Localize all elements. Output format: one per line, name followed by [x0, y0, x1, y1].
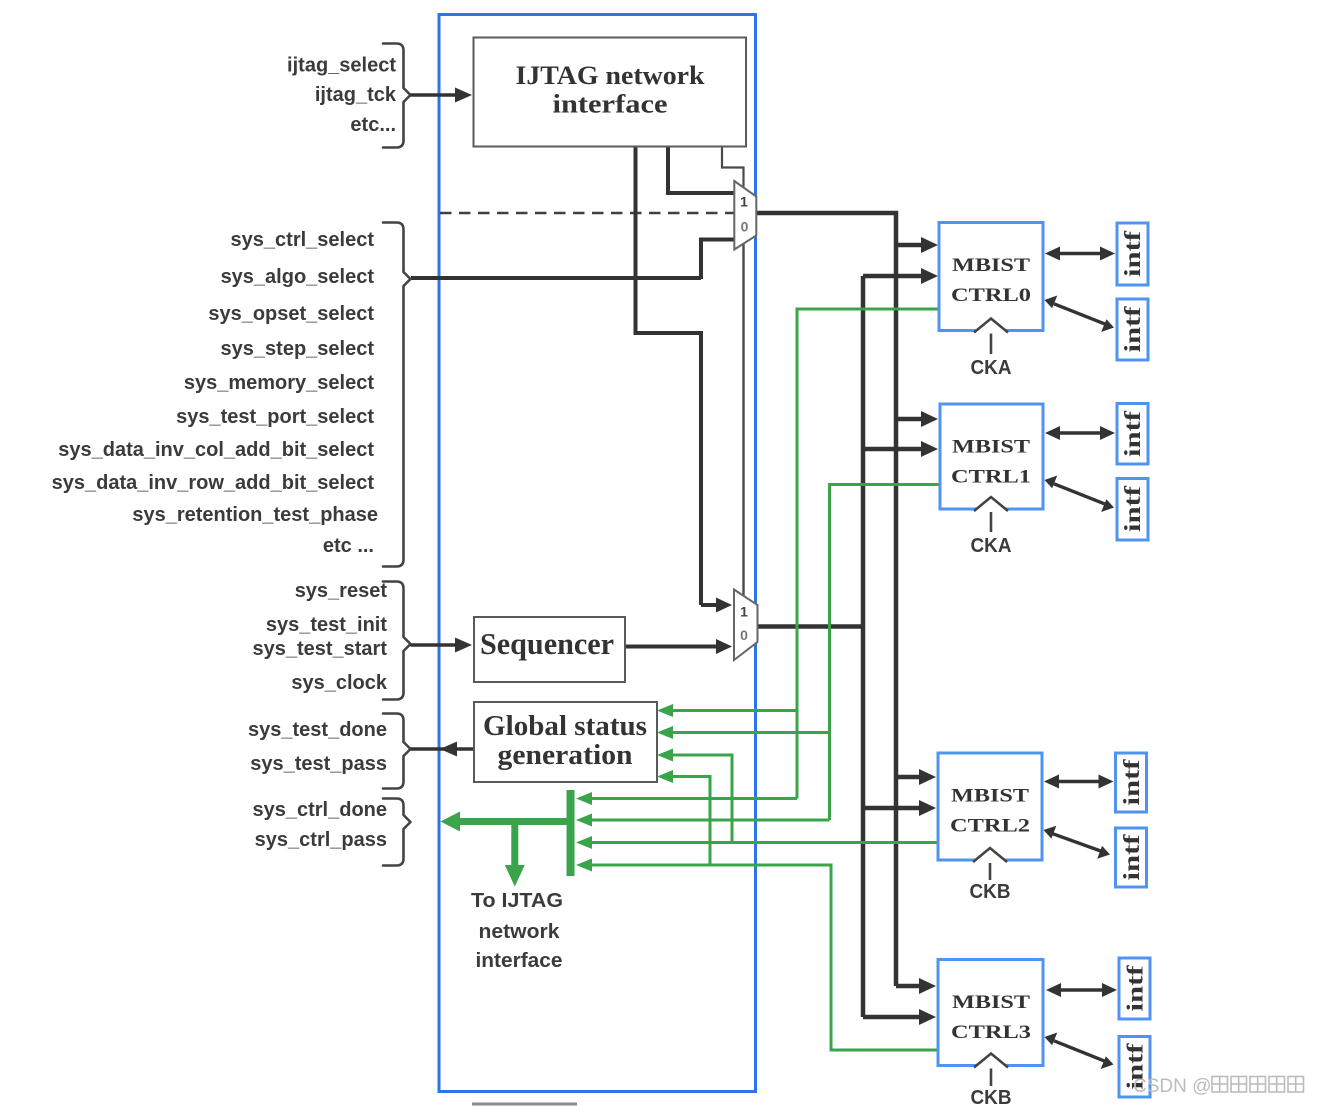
bracket ctrl done group	[383, 799, 411, 866]
intf box B (CTRL0 bottom)	[1117, 299, 1148, 360]
MBIST CTRL0 block	[939, 223, 1043, 331]
svg-text:intf: intf	[1120, 486, 1145, 532]
svg-text:sys_algo_select: sys_algo_select	[221, 266, 375, 288]
input labels ijtag group	[287, 55, 397, 137]
wire: sys select bus horizontal into mux1 input 0	[411, 240, 735, 280]
svg-text:sys_test_pass: sys_test_pass	[250, 753, 387, 775]
green collector bar	[567, 790, 575, 876]
svg-text:sys_test_port_select: sys_test_port_select	[176, 406, 374, 428]
bidir arrow CTRL2-intfE	[1044, 775, 1114, 789]
IJTAG network interface block	[474, 38, 747, 147]
clock pin CKB of CTRL3	[971, 1054, 1012, 1106]
svg-text:sys_data_inv_row_add_bit_selec: sys_data_inv_row_add_bit_select	[52, 472, 375, 494]
svg-text:To IJTAG: To IJTAG	[471, 890, 563, 912]
clock pin CKB of CTRL2	[970, 848, 1011, 903]
svg-text:CTRL1: CTRL1	[951, 467, 1031, 488]
svg-text:ijtag_select: ijtag_select	[287, 55, 396, 77]
svg-text:generation: generation	[498, 739, 633, 771]
clock pin CKA of CTRL0	[971, 319, 1012, 380]
svg-text:MBIST: MBIST	[952, 437, 1030, 458]
wire: sequencer output into mux2 input 0	[625, 639, 732, 654]
bidir arrow CTRL3-intfH (diagonal)	[1045, 1033, 1114, 1070]
watermark	[1133, 1076, 1304, 1097]
MBIST CTRL1 block	[940, 404, 1043, 509]
bidir arrow CTRL1-intfD (diagonal)	[1045, 476, 1115, 513]
intf box H (CTRL3 bottom)	[1119, 1037, 1150, 1098]
svg-text:MBIST: MBIST	[952, 255, 1030, 276]
svg-text:CKA: CKA	[971, 357, 1012, 379]
thick green stub to IJTAG network interface	[505, 822, 525, 887]
status output labels group	[248, 719, 387, 775]
bidir arrow CTRL3-intfG	[1046, 983, 1117, 997]
intf box C (CTRL1 top)	[1117, 404, 1148, 465]
svg-text:MBIST: MBIST	[951, 786, 1029, 807]
intf box A (CTRL0 top)	[1117, 223, 1148, 285]
wire: mux2 output to MBIST second inputs	[758, 268, 939, 1025]
green status wire from MBIST CTRL0	[576, 309, 940, 805]
svg-text:Global status: Global status	[483, 710, 647, 742]
ctrl done/pass labels group	[252, 799, 387, 851]
svg-text:CKA: CKA	[971, 535, 1012, 557]
wire: IJTAG to mux1 input 1	[668, 146, 735, 193]
svg-text:intf: intf	[1119, 759, 1144, 805]
svg-text:interface: interface	[476, 950, 563, 972]
thick green ctrl done/pass arrow	[441, 812, 573, 832]
svg-text:intf: intf	[1123, 965, 1148, 1011]
intf box F (CTRL2 bottom)	[1116, 828, 1147, 887]
arrow out of global status	[411, 742, 475, 757]
svg-text:CTRL3: CTRL3	[951, 1022, 1031, 1043]
svg-text:sys_step_select: sys_step_select	[221, 338, 375, 360]
mux M1 (IJTAG/system select)	[734, 181, 756, 250]
svg-text:sys_test_start: sys_test_start	[252, 638, 387, 660]
clock pin CKA of CTRL1	[971, 497, 1012, 557]
svg-text:CSDN @: CSDN @	[1133, 1076, 1211, 1097]
svg-text:sys_clock: sys_clock	[291, 672, 388, 694]
svg-text:CTRL0: CTRL0	[951, 285, 1031, 306]
global status generation block	[474, 702, 657, 782]
svg-text:CTRL2: CTRL2	[950, 816, 1030, 837]
bidir arrow CTRL0-intfB (diagonal)	[1045, 296, 1115, 333]
partial box edge at bottom	[472, 1103, 577, 1106]
arrow into sequencer	[411, 638, 473, 653]
sequencer block	[474, 617, 625, 682]
arrow ijtag group into block	[411, 88, 473, 103]
svg-text:sys_reset: sys_reset	[295, 580, 388, 602]
svg-text:1: 1	[740, 604, 748, 620]
green status wire from MBIST CTRL2	[576, 749, 938, 850]
sys control labels group (sequencer inputs)	[252, 580, 387, 694]
dashed boundary line	[440, 212, 735, 215]
svg-text:MBIST: MBIST	[952, 992, 1030, 1013]
mux M2 (IJTAG/sequencer select)	[734, 590, 758, 661]
svg-text:1: 1	[740, 194, 748, 210]
svg-text:sys_data_inv_col_add_bit_selec: sys_data_inv_col_add_bit_select	[58, 439, 374, 461]
svg-text:sys_ctrl_done: sys_ctrl_done	[252, 799, 387, 821]
svg-text:sys_ctrl_pass: sys_ctrl_pass	[255, 829, 387, 851]
svg-text:intf: intf	[1120, 411, 1145, 457]
svg-text:sys_opset_select: sys_opset_select	[208, 303, 374, 325]
green status wire from MBIST CTRL1	[576, 485, 940, 827]
bidir arrow CTRL2-intfF (diagonal)	[1044, 826, 1111, 859]
MBIST CTRL3 block	[938, 960, 1043, 1066]
intf box G (CTRL3 top)	[1119, 958, 1150, 1019]
label To IJTAG network interface	[471, 890, 563, 972]
intf box D (CTRL1 bottom)	[1117, 479, 1148, 541]
svg-text:interface: interface	[553, 90, 668, 119]
svg-text:intf: intf	[1120, 231, 1145, 277]
svg-text:intf: intf	[1119, 834, 1144, 880]
wire: mux1 output to MBIST first inputs	[756, 213, 938, 994]
sys select labels group	[52, 229, 378, 557]
svg-text:sys_memory_select: sys_memory_select	[184, 372, 374, 394]
svg-text:IJTAG network: IJTAG network	[516, 61, 706, 90]
bidir arrow CTRL1-intfC	[1045, 426, 1115, 440]
bracket status group	[383, 714, 411, 789]
svg-text:sys_retention_test_phase: sys_retention_test_phase	[132, 504, 378, 526]
svg-text:0: 0	[740, 627, 748, 643]
svg-text:0: 0	[741, 219, 749, 235]
wrapper block (system logic boundary)	[439, 15, 756, 1092]
svg-text:CKB: CKB	[971, 1087, 1012, 1106]
wire: mux select thin line from IJTAG	[722, 146, 744, 597]
svg-text:CKB: CKB	[970, 881, 1011, 903]
svg-text:sys_test_init: sys_test_init	[266, 614, 388, 636]
svg-text:ijtag_tck: ijtag_tck	[315, 84, 397, 106]
green status wire from MBIST CTRL3	[576, 770, 938, 1050]
bidir arrow CTRL0-intfA	[1045, 247, 1115, 261]
intf box E (CTRL2 top)	[1116, 753, 1147, 812]
bracket for sys select group	[383, 223, 411, 567]
wire: IJTAG to mux2 select path (vertical x=635)	[636, 146, 733, 613]
svg-text:etc ...: etc ...	[323, 535, 374, 557]
svg-text:sys_ctrl_select: sys_ctrl_select	[231, 229, 375, 251]
svg-text:etc...: etc...	[350, 114, 396, 136]
svg-text:intf: intf	[1120, 306, 1145, 352]
svg-text:Sequencer: Sequencer	[480, 626, 614, 661]
bracket for ijtag group	[383, 44, 411, 148]
svg-text:network: network	[479, 921, 561, 943]
MBIST CTRL2 block	[938, 753, 1042, 860]
bracket sequencer group	[383, 582, 411, 700]
svg-text:sys_test_done: sys_test_done	[248, 719, 387, 741]
